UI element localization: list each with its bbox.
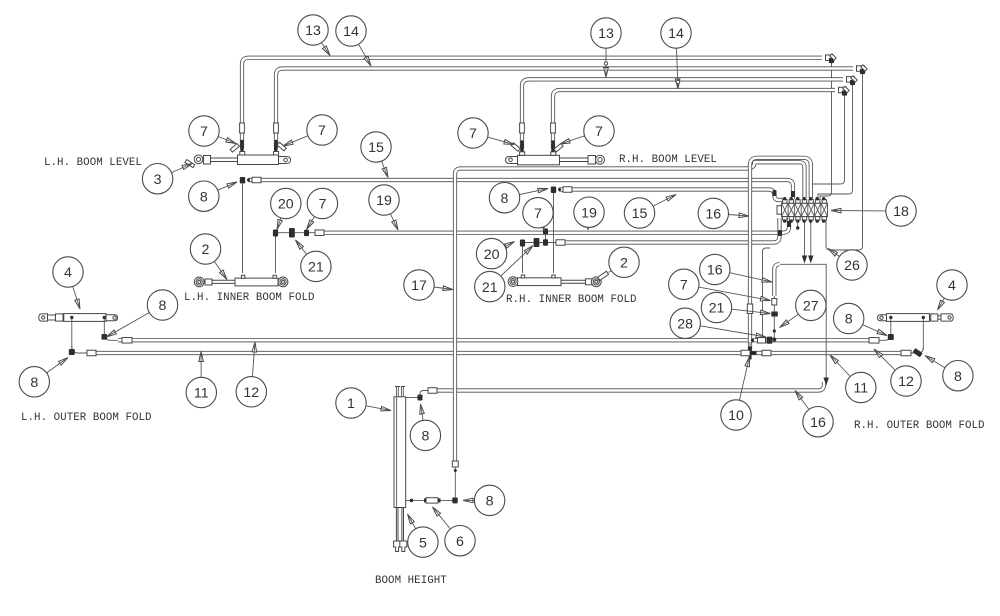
- svg-text:2: 2: [202, 242, 210, 258]
- svg-text:3: 3: [154, 172, 162, 188]
- callout 19: [369, 185, 399, 215]
- manifold 18: [782, 203, 828, 216]
- callout 21: [475, 271, 505, 301]
- callout 8: [189, 181, 219, 211]
- svg-text:16: 16: [705, 207, 721, 223]
- callout 11: [186, 377, 216, 407]
- hose 12 upper run: [118, 338, 875, 342]
- leader to callout 8: [925, 356, 935, 363]
- hose 14 RH: [553, 90, 835, 148]
- manifold port nubs: [783, 200, 787, 204]
- item 16 lower fittings: [773, 296, 775, 338]
- hose 17 lower ferrule: [452, 461, 458, 467]
- svg-text:14: 14: [668, 26, 684, 42]
- coupling on hose 10 vertical: [747, 304, 752, 314]
- L.H. outer drop lines: [71, 318, 73, 349]
- hose 13 LH end fitting + drop: [826, 55, 834, 61]
- callout 8: [19, 367, 49, 397]
- boom height clevis forks: [394, 541, 401, 552]
- leader to callout 8: [463, 498, 473, 503]
- svg-text:21: 21: [308, 260, 324, 276]
- svg-text:11: 11: [194, 386, 209, 402]
- leader to callout 15: [382, 167, 388, 177]
- leader to callout 7: [539, 220, 545, 230]
- svg-text:8: 8: [501, 191, 509, 207]
- svg-text:2: 2: [620, 256, 628, 272]
- hose 14 LH end fitting + drop: [857, 66, 865, 72]
- leader to callout 12: [252, 342, 257, 352]
- leader to callout 27: [780, 320, 790, 328]
- callout 8: [834, 303, 864, 333]
- callout 7: [584, 116, 614, 146]
- svg-text:7: 7: [680, 278, 688, 294]
- leader to callout 7: [226, 138, 236, 144]
- svg-text:12: 12: [243, 385, 259, 401]
- callout 21: [301, 251, 331, 281]
- cylinder L.H. outer boom fold 4: [64, 314, 106, 322]
- leader to callout 7: [760, 296, 770, 301]
- R.H. outer drop lines: [890, 318, 892, 337]
- leader to callout 19: [586, 220, 591, 230]
- svg-text:8: 8: [30, 375, 38, 391]
- cylinder L.H. boom level: [238, 155, 279, 165]
- hose 15: [248, 180, 793, 199]
- callout 15: [624, 198, 654, 228]
- callout 7: [189, 116, 219, 146]
- fitting 8 R.H. inner: [553, 193, 555, 273]
- callout 17: [404, 270, 434, 300]
- boom height top tee 8: [406, 397, 420, 399]
- boom height bottom fitting 6: [406, 499, 455, 501]
- svg-text:20: 20: [278, 197, 294, 213]
- leader to callout 26: [828, 249, 838, 257]
- callout 7: [307, 188, 337, 218]
- leader to callout 16: [739, 213, 749, 218]
- leader to callout 21: [524, 246, 533, 255]
- svg-text:7: 7: [469, 126, 477, 142]
- svg-text:8: 8: [486, 494, 494, 510]
- callout 1: [336, 388, 366, 418]
- hose 11 lower run: [88, 351, 907, 355]
- leader to callout 28: [756, 333, 766, 338]
- leader to callout 13: [323, 46, 331, 56]
- leader to callout 4: [938, 300, 945, 310]
- callout 20: [476, 238, 506, 268]
- svg-text:15: 15: [368, 140, 384, 156]
- callout 16: [803, 407, 833, 437]
- leader to callout 14: [675, 79, 680, 89]
- svg-text:20: 20: [484, 247, 500, 263]
- cylinder boom height 1: [394, 397, 406, 508]
- svg-text:4: 4: [948, 278, 956, 294]
- callout 12: [236, 377, 266, 407]
- hose 14 LH: [276, 69, 853, 149]
- leader to callout 15: [666, 195, 676, 202]
- leader to callout 8: [420, 404, 425, 414]
- svg-text:L.H. OUTER BOOM FOLD: L.H. OUTER BOOM FOLD: [21, 412, 152, 424]
- hose 13 RH: [522, 79, 843, 148]
- callout 4: [53, 257, 83, 287]
- leader to callout 7: [283, 140, 293, 146]
- svg-text:7: 7: [595, 124, 603, 140]
- callout 4: [937, 270, 967, 300]
- elbow fittings near manifold: [791, 191, 795, 197]
- svg-text:13: 13: [305, 23, 321, 39]
- leader to callout 17: [443, 286, 453, 291]
- svg-text:8: 8: [421, 429, 429, 445]
- svg-text:16: 16: [810, 415, 826, 431]
- svg-text:L.H. INNER BOOM FOLD: L.H. INNER BOOM FOLD: [184, 292, 315, 304]
- arrow hose16 to box bottom: [824, 378, 829, 386]
- cylinder R.H. outer boom fold 4: [887, 314, 930, 322]
- svg-text:26: 26: [844, 258, 860, 274]
- cylinder L.H. inner boom fold 2: [235, 278, 278, 286]
- callout 8: [147, 290, 177, 320]
- svg-text:5: 5: [419, 535, 427, 551]
- callout 8: [943, 361, 973, 391]
- callout 7: [669, 269, 699, 299]
- svg-text:8: 8: [159, 298, 167, 314]
- svg-text:21: 21: [482, 280, 498, 296]
- leader to callout 10: [745, 357, 750, 367]
- callout 2: [190, 234, 220, 264]
- leader to callout 21: [296, 240, 304, 249]
- svg-text:21: 21: [709, 301, 725, 317]
- callout 16: [698, 198, 728, 228]
- leader to callout 5: [408, 514, 415, 524]
- callout 14: [336, 16, 366, 46]
- leader to callout 8: [107, 330, 117, 337]
- callout 13: [298, 15, 328, 45]
- svg-text:11: 11: [853, 381, 868, 397]
- callout 15: [361, 132, 391, 162]
- leader to callout 7: [307, 220, 314, 230]
- svg-text:L.H. BOOM LEVEL: L.H. BOOM LEVEL: [44, 157, 142, 169]
- svg-text:R.H. BOOM LEVEL: R.H. BOOM LEVEL: [619, 154, 717, 166]
- svg-text:16: 16: [707, 263, 723, 279]
- cross junction item 10: [744, 347, 757, 360]
- svg-text:7: 7: [318, 123, 326, 139]
- callout 8: [489, 183, 519, 213]
- svg-text:BOOM HEIGHT: BOOM HEIGHT: [375, 575, 447, 587]
- svg-text:7: 7: [534, 206, 542, 222]
- callout 8: [410, 420, 440, 450]
- leader to callout 6: [433, 507, 441, 516]
- leader to callout 7: [504, 140, 514, 145]
- svg-text:R.H. OUTER BOOM FOLD: R.H. OUTER BOOM FOLD: [854, 420, 985, 432]
- callout 3: [142, 164, 172, 194]
- manifold bottom stubs: [797, 220, 799, 228]
- callout 11: [846, 372, 876, 402]
- svg-text:7: 7: [318, 197, 326, 213]
- fittings on lower runs: [758, 338, 766, 344]
- callout 21: [701, 292, 731, 322]
- svg-text:10: 10: [728, 408, 744, 424]
- leader to callout 2: [609, 271, 612, 273]
- leader to callout 11: [830, 355, 839, 364]
- hose collars above L.H. boom level: [240, 123, 245, 133]
- callout 19: [574, 197, 604, 227]
- cylinder R.H. inner boom fold 2: [518, 278, 562, 286]
- callout 18: [886, 196, 916, 226]
- svg-text:6: 6: [456, 534, 464, 550]
- top elbow fittings: [829, 58, 834, 63]
- callout 12: [891, 366, 921, 396]
- leader to callout 20: [277, 219, 282, 229]
- svg-text:17: 17: [411, 278, 427, 294]
- svg-text:1: 1: [347, 396, 355, 412]
- callout 10: [721, 400, 751, 430]
- callout 7: [523, 198, 553, 228]
- callout 16: [700, 254, 730, 284]
- leader to callout 16: [762, 278, 772, 283]
- svg-text:7: 7: [200, 124, 208, 140]
- leader to callout 20: [505, 242, 515, 249]
- leader to callout 21: [760, 310, 770, 315]
- hose 17: [455, 162, 805, 461]
- jump mark on leader 14: [676, 80, 679, 83]
- hose 16 vert: [774, 264, 779, 296]
- leader to callout 7: [560, 139, 570, 144]
- svg-text:8: 8: [954, 369, 962, 385]
- hose 21R: [563, 218, 780, 243]
- hose 13 RH end fitting + drop: [847, 77, 855, 83]
- svg-text:8: 8: [200, 189, 208, 205]
- svg-text:18: 18: [893, 204, 909, 220]
- cylinder R.H. boom level: [518, 155, 560, 165]
- svg-text:13: 13: [598, 26, 614, 42]
- boom height rods: [395, 508, 397, 542]
- callout 14: [661, 18, 691, 48]
- leader to callout 3: [182, 164, 192, 170]
- hose collars above R.H. boom level: [520, 123, 525, 133]
- callout 2: [609, 247, 639, 277]
- leader to callout 19: [392, 220, 398, 230]
- leader to callout 11: [199, 352, 204, 362]
- callout 7: [307, 115, 337, 145]
- callout 6: [445, 526, 475, 556]
- leader to callout 18: [831, 208, 841, 213]
- leader to callout 8: [59, 358, 69, 366]
- svg-text:19: 19: [581, 205, 597, 221]
- svg-text:19: 19: [376, 193, 392, 209]
- hose 14 RH end fitting + drop: [839, 87, 847, 93]
- svg-text:12: 12: [898, 374, 914, 390]
- svg-text:14: 14: [343, 24, 359, 40]
- callout 13: [591, 18, 621, 48]
- hose 10: [750, 158, 811, 352]
- arrow onto box top from port 810.8: [810, 220, 812, 258]
- leader to callout 8: [538, 188, 548, 193]
- fitting 8 L.H. inner: [242, 184, 244, 273]
- leader to callout 16: [795, 391, 803, 400]
- leader to callout 8: [877, 329, 887, 335]
- L.H. boom level port fittings 7: [240, 152, 245, 156]
- R.H. boom level port fittings 7: [520, 152, 525, 156]
- callout 26: [837, 250, 867, 280]
- leader to callout 8: [227, 182, 237, 188]
- svg-text:28: 28: [677, 317, 693, 333]
- leader to callout 12: [874, 349, 883, 358]
- hose 8R-to-manifold: [559, 190, 783, 201]
- leader to callout 14: [364, 56, 371, 66]
- fitting cluster R.H. inner 20/7/21: [522, 246, 524, 273]
- callout 5: [408, 527, 438, 557]
- svg-text:R.H. INNER BOOM FOLD: R.H. INNER BOOM FOLD: [506, 294, 637, 306]
- valve box outline: [780, 264, 826, 385]
- fitting cluster L.H. inner 20/7/21: [275, 236, 277, 273]
- arrow onto box top from port 804.5: [804, 220, 806, 258]
- jump mark on leader 13: [604, 62, 607, 65]
- leader to callout 4: [75, 299, 80, 309]
- callout 8: [474, 485, 504, 515]
- wire x762: [763, 248, 771, 337]
- leader to callout 13: [604, 68, 609, 78]
- leader to callout 1: [381, 406, 391, 411]
- callout 20: [271, 188, 301, 218]
- hose 19: [316, 218, 789, 233]
- hose 16: [433, 382, 824, 391]
- callout 7: [458, 118, 488, 148]
- svg-text:27: 27: [803, 299, 819, 315]
- callout 27: [796, 290, 826, 320]
- svg-text:4: 4: [64, 265, 72, 281]
- leader to callout 2: [219, 270, 227, 280]
- callout 28: [670, 308, 700, 338]
- svg-text:8: 8: [845, 312, 853, 328]
- hose 13 LH: [242, 58, 822, 148]
- svg-text:15: 15: [632, 206, 648, 222]
